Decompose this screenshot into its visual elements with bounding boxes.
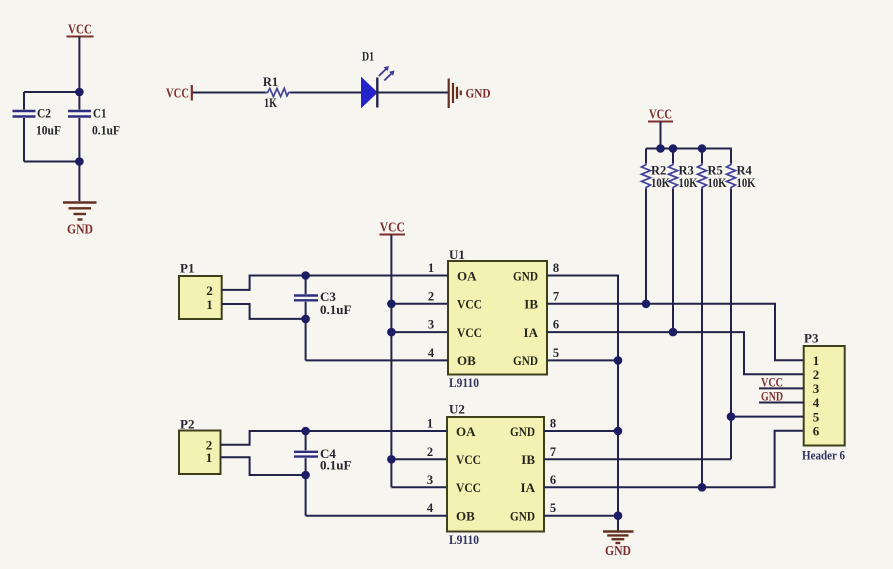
junction node: top cap rail: [75, 88, 84, 97]
junction node: gnd rail / U2 pin8: [614, 427, 623, 436]
wire rail to U2 pin 3: [391, 486, 447, 488]
wire R5 to U2 pin6 net: [701, 189, 703, 487]
svg-text:U1: U1: [449, 247, 465, 262]
wire R1 to LED: [291, 92, 363, 94]
svg-text:IB: IB: [521, 452, 535, 467]
power port VCC (P3 pin 3): [759, 376, 804, 390]
IC U2 L9110: [447, 402, 544, 548]
junction node: R4 / P3 pin5 net: [727, 412, 736, 421]
svg-text:7: 7: [553, 289, 559, 303]
connector P1: [179, 261, 222, 320]
junction node: bottom cap rail: [75, 157, 84, 166]
capacitor C2: [13, 92, 62, 162]
svg-text:1: 1: [206, 297, 213, 312]
svg-text:VCC: VCC: [380, 220, 405, 235]
svg-text:GND: GND: [513, 353, 538, 368]
wire P1 pin 2 to U1 pin 1: [222, 276, 448, 290]
svg-text:2: 2: [427, 445, 433, 459]
svg-text:0.1uF: 0.1uF: [320, 458, 351, 473]
junction node: C3 bottom / P1 pin1 net: [301, 315, 310, 324]
svg-text:10K: 10K: [679, 176, 698, 190]
power port VCC (mid rail): [380, 220, 406, 235]
wire bottom node across: [24, 161, 79, 163]
junction node: C4 top / U2 pin1 net: [301, 427, 310, 436]
junction node: VCC bus / drop: [656, 144, 665, 153]
svg-text:C2: C2: [37, 106, 51, 121]
junction node: R3 / U1 pin6 net: [669, 328, 678, 337]
svg-text:GND: GND: [510, 509, 535, 524]
svg-text:1: 1: [427, 417, 433, 431]
wire R2 to U1 pin7 net: [645, 189, 647, 304]
svg-text:R1: R1: [263, 75, 278, 89]
wire U1 pin 8 to gnd rail: [547, 276, 618, 516]
junction node: C3 top / U1 pin1 net: [301, 271, 310, 280]
svg-text:Header 6: Header 6: [802, 448, 845, 463]
svg-text:VCC: VCC: [457, 297, 482, 312]
capacitor C1: [68, 92, 120, 162]
svg-text:10uF: 10uF: [36, 123, 61, 138]
wire U2 pin 7 to R4 / P3 pin 5: [544, 458, 731, 460]
svg-text:8: 8: [550, 417, 556, 431]
svg-text:10K: 10K: [651, 176, 670, 190]
wire gnd rail stub down to ground: [617, 516, 619, 531]
svg-text:L9110: L9110: [449, 532, 479, 547]
svg-text:VCC: VCC: [649, 107, 672, 122]
svg-text:OB: OB: [457, 353, 476, 368]
ground (led row, sideways): [449, 79, 491, 109]
svg-text:10K: 10K: [737, 176, 756, 190]
svg-text:L9110: L9110: [449, 375, 479, 390]
wire U1 pin 6 to P3 pin 2: [547, 332, 804, 374]
svg-text:GND: GND: [466, 86, 491, 101]
svg-text:IA: IA: [521, 480, 536, 495]
wire resistor bus: [646, 148, 732, 150]
svg-text:6: 6: [813, 423, 820, 438]
connector P2: [179, 417, 221, 475]
wire rail to U1 pin 2: [391, 303, 448, 305]
svg-text:P3: P3: [804, 331, 819, 346]
svg-text:1: 1: [428, 261, 434, 275]
capacitor C4: [294, 431, 351, 516]
svg-text:GND: GND: [67, 222, 93, 237]
wire VCC drop to bus: [660, 122, 662, 149]
svg-text:6: 6: [550, 473, 556, 487]
wire P2 pin 1 to C4 bottom node: [221, 457, 306, 475]
svg-text:VCC: VCC: [457, 325, 482, 340]
svg-text:IA: IA: [524, 325, 539, 340]
wire VCC down to cap top node: [78, 37, 80, 93]
svg-text:2: 2: [428, 289, 434, 303]
svg-text:4: 4: [427, 501, 434, 515]
svg-text:5: 5: [553, 346, 559, 360]
wire rail to U1 pin 3: [391, 331, 448, 333]
svg-text:U2: U2: [449, 402, 465, 417]
junction node: R5 / U2 pin6 net: [698, 483, 707, 492]
junction node: VCC rail / U1 pin2: [387, 300, 396, 309]
wire rail to U2 pin 2: [391, 458, 447, 460]
ground (top-left): [63, 203, 97, 237]
svg-text:10K: 10K: [708, 176, 727, 190]
wire U1 pin 7 to P3 pin 1: [547, 304, 804, 360]
svg-text:OA: OA: [457, 268, 477, 283]
power port GND (P3 pin 4): [759, 390, 804, 404]
svg-text:D1: D1: [362, 50, 374, 64]
svg-text:VCC: VCC: [456, 480, 481, 495]
junction node: VCC bus / R5: [698, 144, 707, 153]
junction node: gnd rail / U2 pin5: [614, 511, 623, 520]
wire P3 pin 5 to R4/U2 pin7 net: [731, 416, 804, 418]
svg-text:VCC: VCC: [68, 22, 92, 37]
svg-text:2: 2: [813, 367, 820, 382]
resistor R4 10K: [727, 149, 756, 191]
svg-text:GND: GND: [513, 268, 538, 283]
svg-text:P2: P2: [180, 417, 194, 432]
wire LED to ground: [377, 92, 448, 94]
IC U1 L9110: [448, 247, 547, 390]
svg-text:7: 7: [550, 445, 556, 459]
wire U1 pin 5 to gnd rail: [547, 359, 618, 361]
junction node: VCC bus / R3: [669, 144, 678, 153]
ground (bottom): [603, 532, 634, 559]
wire VCC vertical rail to U1/U2 VCC pins: [390, 235, 392, 488]
svg-text:VCC: VCC: [456, 452, 481, 467]
svg-text:5: 5: [550, 501, 556, 515]
svg-text:6: 6: [553, 318, 559, 332]
power port VCC (top-left): [67, 22, 94, 37]
svg-text:0.1uF: 0.1uF: [320, 302, 351, 317]
resistor R3 10K: [669, 149, 698, 191]
resistor R1 1K: [263, 75, 291, 110]
svg-text:5: 5: [813, 409, 820, 424]
svg-text:8: 8: [553, 261, 559, 275]
resistor R2 10K: [642, 149, 671, 191]
wire R4 to U2 pin7 net: [730, 189, 732, 459]
svg-text:IB: IB: [524, 297, 538, 312]
wire U2 pin 8 to gnd rail: [544, 430, 618, 432]
wire top node to C2 branch: [24, 91, 79, 93]
LED D1: [362, 50, 395, 108]
svg-text:4: 4: [813, 395, 820, 410]
connector P3 Header 6: [802, 331, 845, 463]
svg-text:3: 3: [427, 473, 433, 487]
svg-text:1: 1: [813, 353, 820, 368]
wire R3 to U1 pin6 net: [672, 189, 674, 332]
svg-text:C1: C1: [93, 106, 107, 121]
wire down to ground: [78, 162, 80, 202]
wire U2 pin 6 to P3 pin 6: [544, 431, 804, 488]
svg-text:1: 1: [206, 450, 213, 465]
wire U2 pin 5 to gnd rail: [544, 515, 618, 517]
svg-text:3: 3: [428, 318, 434, 332]
wire C4 branch to U2 pin 4: [306, 515, 447, 517]
svg-text:OA: OA: [456, 424, 476, 439]
resistor R5 10K: [698, 149, 727, 191]
power port VCC (led row): [166, 85, 192, 101]
svg-text:4: 4: [428, 346, 435, 360]
svg-text:VCC: VCC: [166, 86, 189, 101]
svg-text:1K: 1K: [264, 96, 277, 110]
junction node: VCC rail / U2 pin2: [387, 455, 396, 464]
svg-text:0.1uF: 0.1uF: [92, 123, 120, 138]
junction node: C4 bottom / P2 pin1 net: [301, 471, 310, 480]
capacitor C3: [294, 276, 351, 361]
wire P2 pin 2 to U2 pin 1: [221, 431, 448, 445]
wire C3 branch to U1 pin 4: [306, 359, 448, 361]
svg-text:2: 2: [206, 283, 213, 298]
power port VCC (resistor bank): [648, 107, 673, 122]
junction node: gnd rail / U1 pin5: [614, 356, 623, 365]
svg-text:P1: P1: [180, 261, 194, 276]
wire P1 pin 1 to C3 bottom node: [222, 304, 306, 319]
junction node: R2 / U1 pin7 net: [642, 300, 651, 309]
svg-text:3: 3: [813, 381, 820, 396]
svg-text:OB: OB: [456, 509, 475, 524]
svg-text:GND: GND: [510, 424, 535, 439]
svg-text:GND: GND: [605, 543, 631, 558]
wire VCC to R1: [193, 92, 267, 94]
junction node: VCC rail / U1 pin3: [387, 328, 396, 337]
